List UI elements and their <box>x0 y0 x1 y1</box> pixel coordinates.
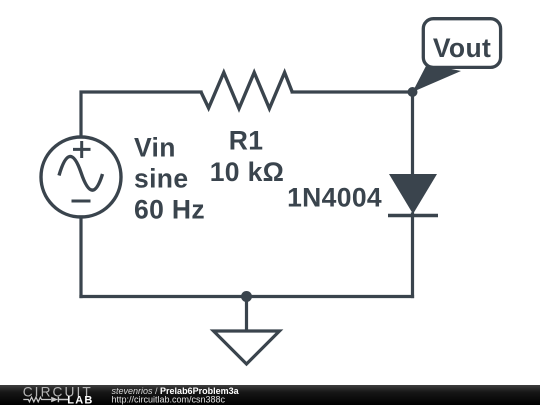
ground triangle <box>214 331 280 364</box>
svg-text:60 Hz: 60 Hz <box>134 195 205 225</box>
resistor R1 <box>201 73 292 109</box>
diode cathode bar <box>388 214 438 218</box>
svg-text:Vout: Vout <box>433 33 491 63</box>
sine wave <box>59 156 103 190</box>
svg-text:Vin: Vin <box>134 133 176 163</box>
svg-text:1N4004: 1N4004 <box>287 183 382 213</box>
minus sign <box>72 200 91 203</box>
svg-text:LAB: LAB <box>67 395 93 405</box>
svg-text:http://circuitlab.com/csn388c: http://circuitlab.com/csn388c <box>112 395 226 405</box>
Vout callout tail <box>413 64 462 92</box>
ground stem <box>245 297 248 332</box>
voltage source V1 circle <box>41 137 121 217</box>
wire diode to bottom rail <box>411 214 414 297</box>
bottom wire <box>81 295 413 298</box>
wire right (node to diode) <box>411 92 414 176</box>
junction dot ground node <box>241 291 252 302</box>
svg-text:10 kΩ: 10 kΩ <box>210 157 285 187</box>
diode D1 triangle <box>389 174 437 214</box>
node dot Vout <box>408 87 418 97</box>
Vout flag box <box>423 19 500 68</box>
logo diode <box>51 397 58 403</box>
plus sign <box>73 141 91 158</box>
wire resistor to Vout node <box>292 90 412 93</box>
wire top-left (source top to resistor) <box>81 92 201 136</box>
logo wire + resistor zigzag <box>23 397 51 402</box>
svg-text:R1: R1 <box>229 126 264 156</box>
wire source bottom to bottom rail <box>79 217 82 297</box>
svg-text:sine: sine <box>134 164 188 194</box>
